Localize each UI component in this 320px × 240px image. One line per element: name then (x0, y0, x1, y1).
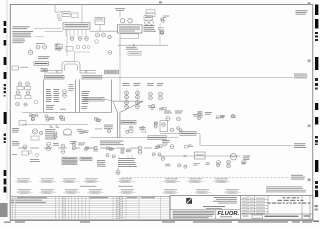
svg-text:FLUOR.: FLUOR. (218, 211, 240, 217)
